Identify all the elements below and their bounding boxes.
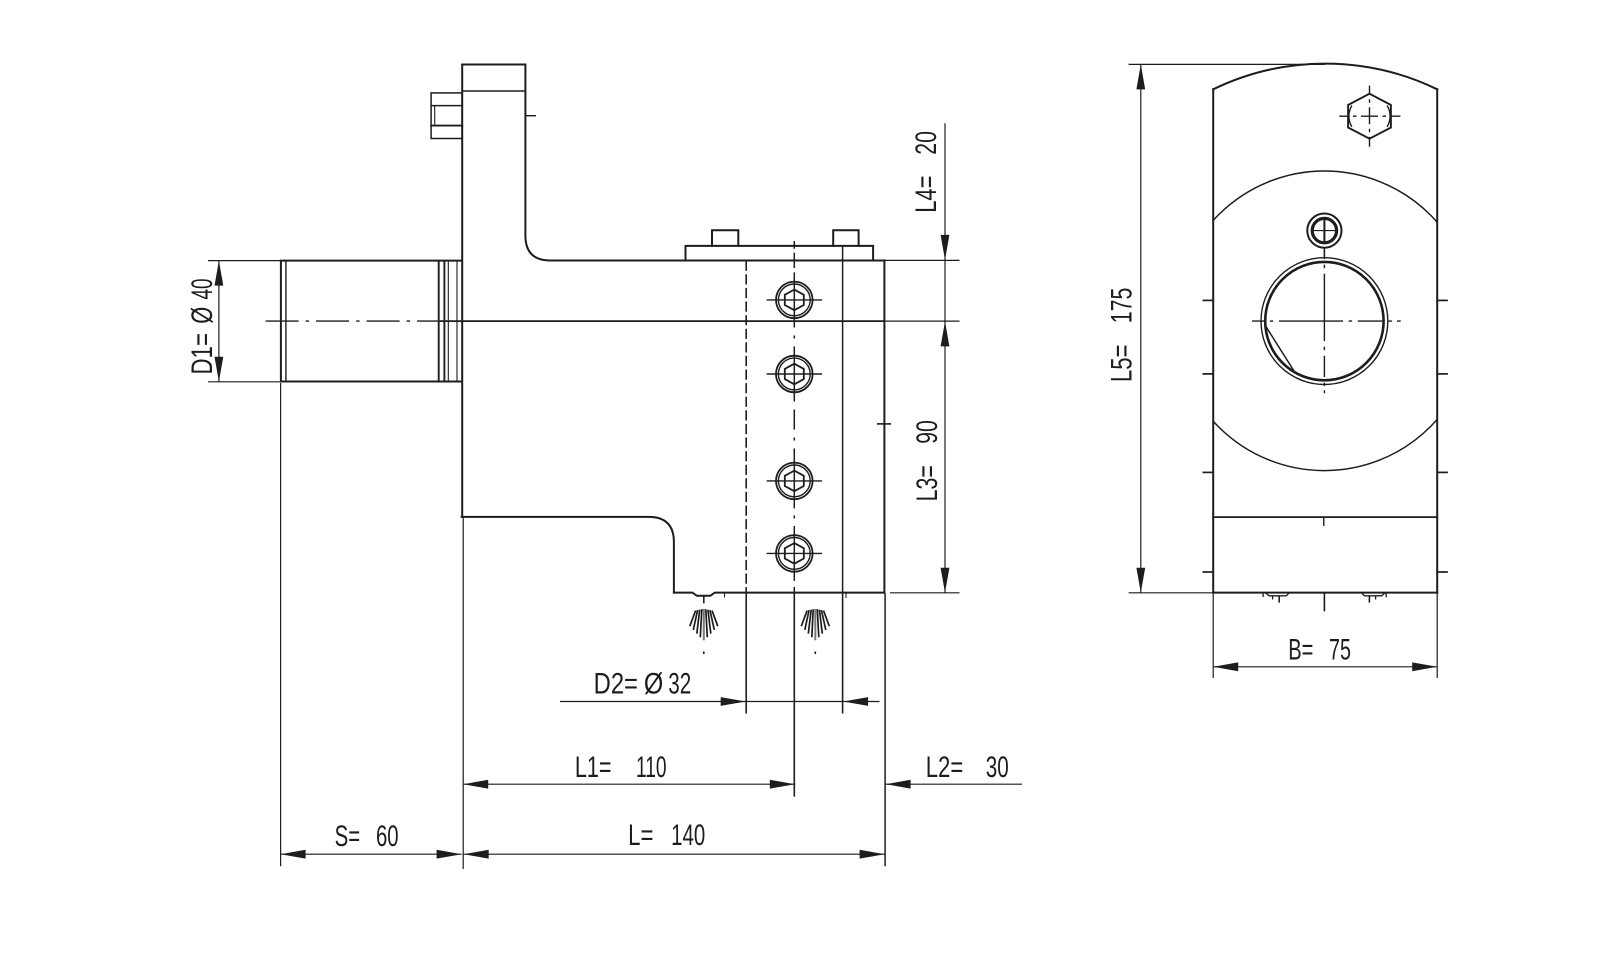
clamp bolt head (side view) [431,93,462,139]
svg-text:D1=: D1= [185,333,219,374]
screw column centerline [793,241,795,593]
coolant nozzle 1 with spray fan [690,597,718,655]
front set screw [1307,214,1341,259]
thread tick right of arm [525,115,535,117]
body right edge [883,261,885,593]
dimension L2 = 30 [885,783,1022,785]
tower cap top [462,64,525,66]
hex crosshair [1339,115,1400,117]
coolant nozzle 2 spray fan [725,593,847,654]
dimension L5 = 175 [1129,64,1325,592]
svg-text:L=: L= [628,818,653,852]
plate pad 2 [833,230,858,246]
shaft D1 cylinder outline [281,261,462,382]
plate pad 1 [712,230,738,246]
socket screw 1 [776,282,813,319]
tick on body right edge [877,423,891,425]
socket screw 4 [776,535,813,572]
body bottom edge with nozzle notch [674,593,885,596]
socket screw 3 [776,463,813,500]
svg-text:L3=: L3= [912,465,944,501]
edge witness ticks [1203,300,1448,572]
dimension L1 = 110 [463,783,795,785]
hidden bore left edge (dashed) [745,262,747,593]
bore right edge line [842,246,844,593]
svg-text:110: 110 [636,751,667,784]
svg-text:L1=: L1= [575,750,612,784]
mounting plate on body top [686,246,874,261]
hex bolt head top [1339,86,1400,147]
right view: front elevation [1213,64,1437,593]
front body right edge [1436,89,1438,592]
dimension B = 75 [1213,593,1437,678]
shaft relief groove lines [438,261,440,381]
body top edge [550,260,884,262]
svg-text:S=: S= [335,820,361,853]
dimension D2 = diameter 32 [560,593,880,714]
main horizontal centerline [266,321,960,424]
tower arm left edge / body left edge [461,65,463,517]
svg-text:175: 175 [1106,288,1138,324]
tower arm right edge with bottom fillet into body top [525,65,550,261]
tower cap bottom line [462,90,525,92]
center tick below step line [1323,517,1325,525]
svg-text:140: 140 [671,819,705,852]
small ticks under bottom edge [724,593,726,598]
svg-text:60: 60 [376,820,399,853]
dimension L4 = 20 and L3 = 90 [884,123,959,593]
svg-text:L5=: L5= [1104,345,1138,383]
left view: side elevation of tool holder [281,65,885,596]
svg-text:90: 90 [912,420,944,444]
svg-text:40: 40 [186,278,219,299]
svg-text:Ø: Ø [185,307,219,324]
svg-text:30: 30 [986,751,1009,783]
bottom nozzle fittings (front view) [1263,593,1386,612]
center tick below bottom [1323,593,1325,612]
body lower step edge and fillet [462,517,674,593]
socket screw 2 [776,356,813,393]
svg-text:D2=: D2= [594,667,638,700]
shaft end-face chamfer line [285,261,287,382]
bore crosshair centerlines [1252,248,1401,393]
svg-text:L2=: L2= [926,750,964,784]
front body top arc [1213,64,1437,90]
front body bottom edge [1213,592,1437,594]
dimension L = 140 [463,853,885,855]
hex inscribed circle arcs [1349,106,1390,127]
dimension S = 60 [281,383,886,869]
front body left edge [1212,89,1214,592]
front step line [1213,516,1437,518]
dimension D1 = diameter 40 [208,261,281,382]
svg-text:B=: B= [1288,634,1313,667]
bore circles [1261,258,1388,385]
clamping screws column [767,241,823,797]
bore key flat chord [1265,324,1296,373]
screw centerline extension to L1 dim [793,593,795,797]
svg-text:Ø: Ø [644,666,663,700]
svg-text:32: 32 [668,668,691,700]
svg-text:L4=: L4= [909,176,943,213]
svg-text:20: 20 [911,131,943,155]
svg-text:75: 75 [1329,634,1351,667]
